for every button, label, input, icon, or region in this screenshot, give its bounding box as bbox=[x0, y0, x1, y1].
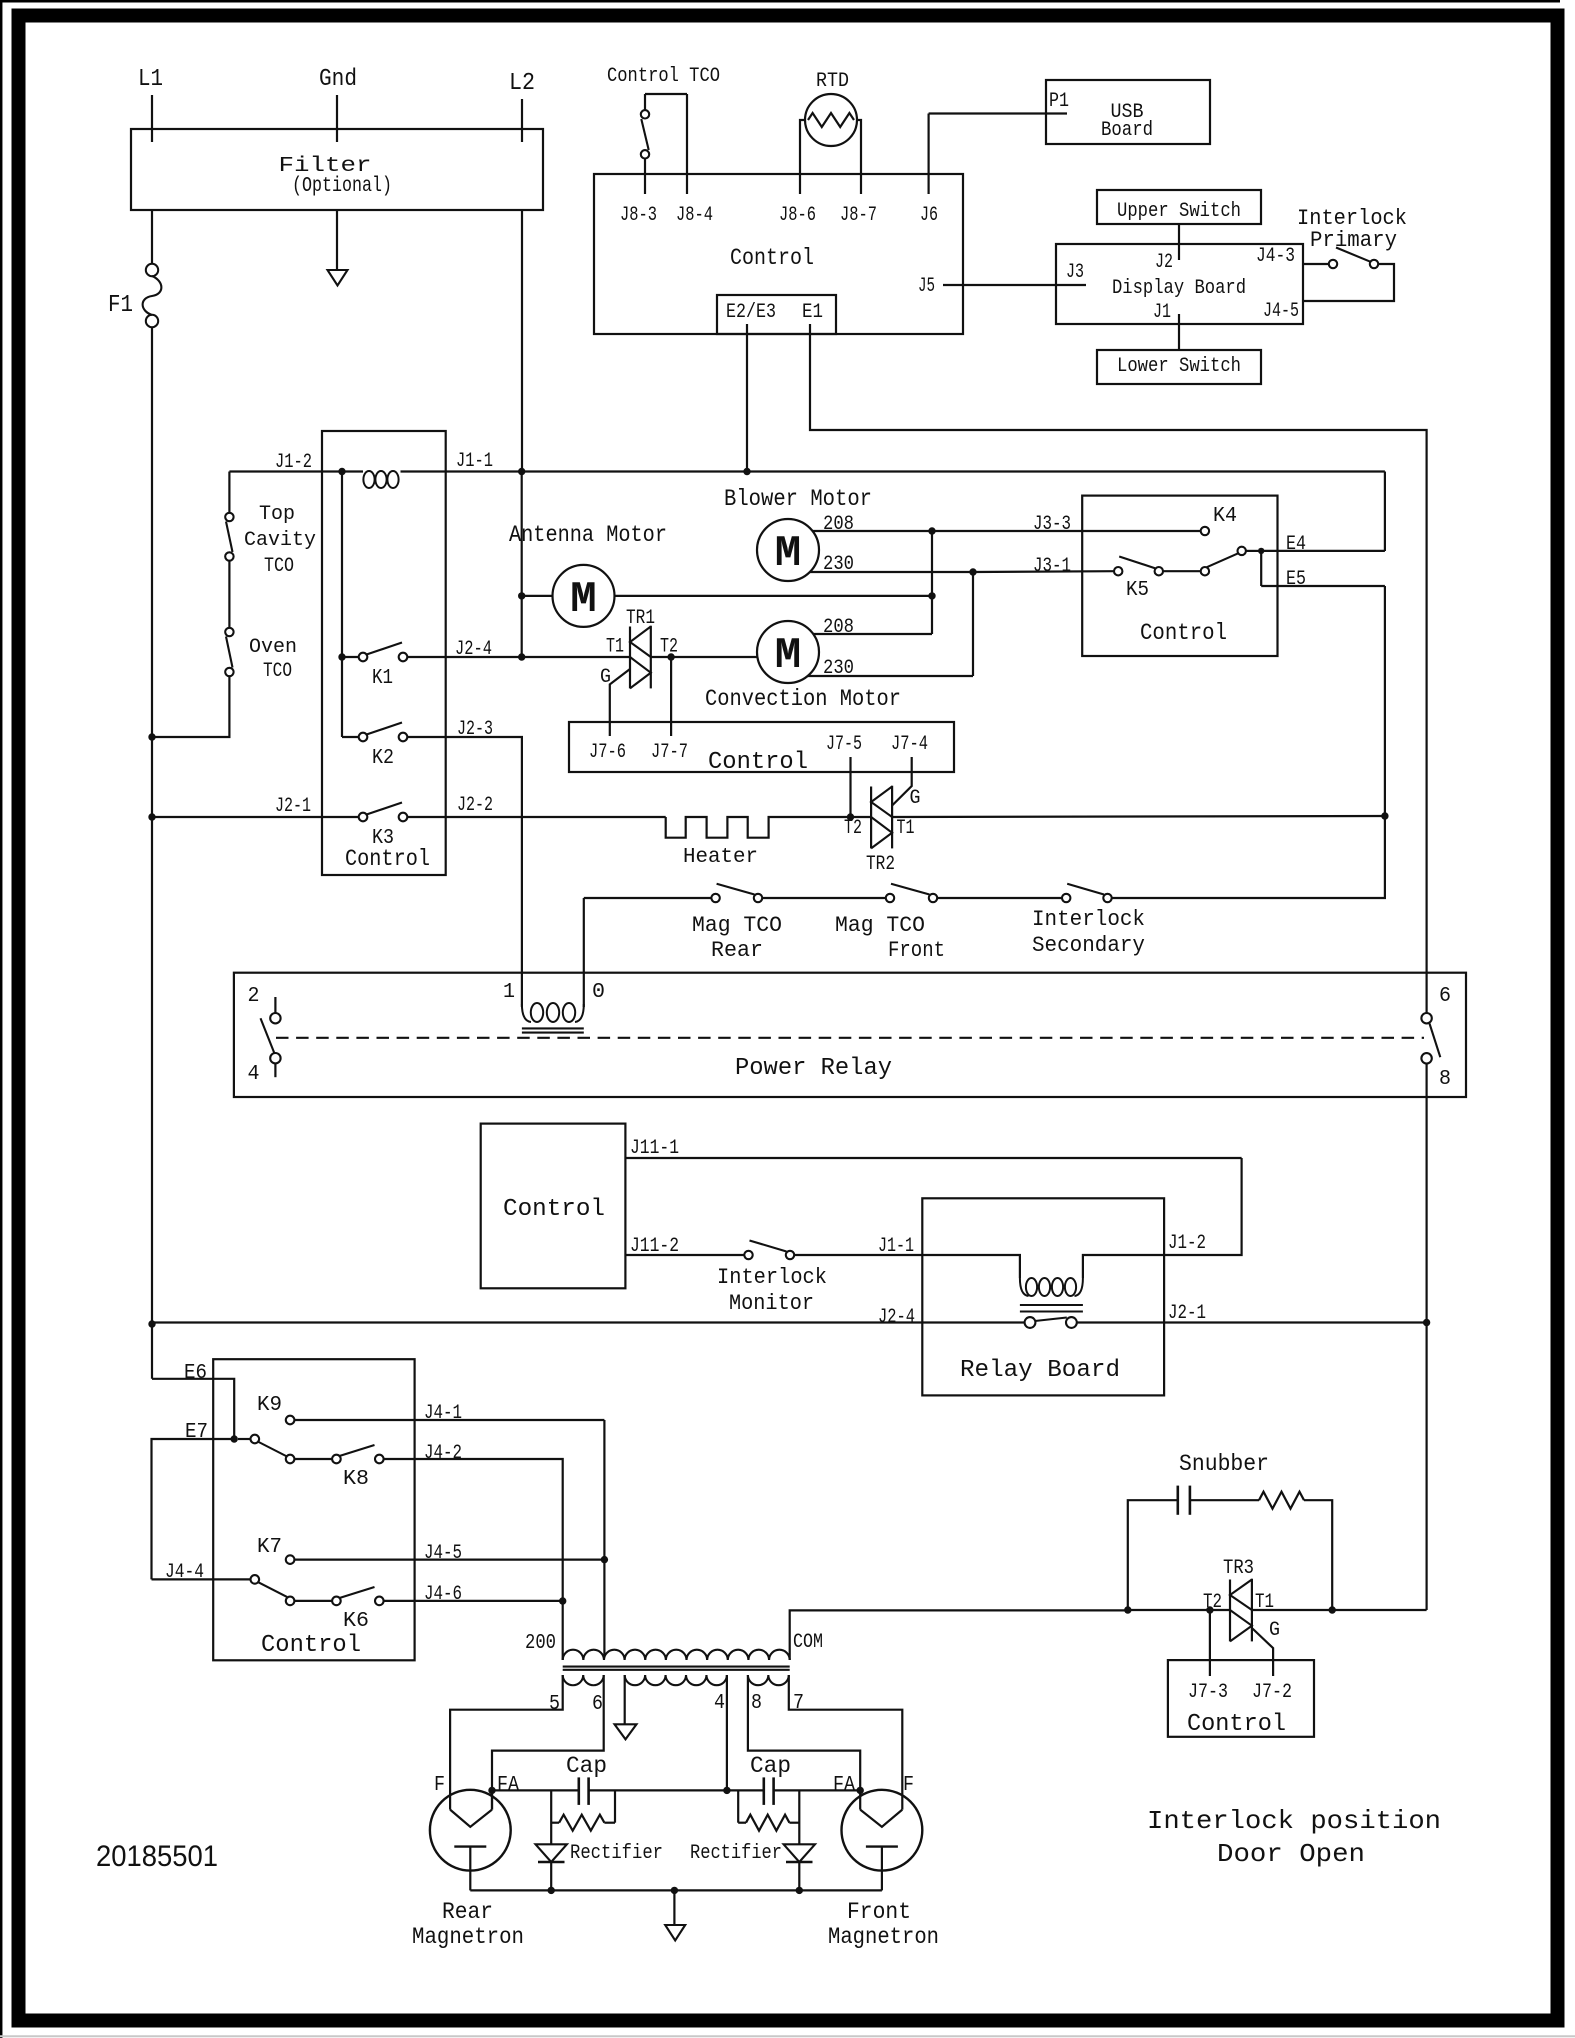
wire TR1 T2 to convection bbox=[651, 656, 757, 658]
rectifier diode front bbox=[784, 1844, 815, 1862]
wire COM bbox=[790, 1610, 1128, 1660]
svg-text:J4-1: J4-1 bbox=[424, 1402, 462, 1425]
svg-text:TCO: TCO bbox=[264, 555, 294, 578]
svg-text:J2-4: J2-4 bbox=[878, 1306, 915, 1329]
wire TR3 T1 to right bus bbox=[1252, 1609, 1427, 1611]
svg-text:F1: F1 bbox=[108, 292, 133, 319]
svg-text:M: M bbox=[570, 575, 596, 625]
upper switch box bbox=[1097, 190, 1261, 224]
wire E6 bbox=[152, 1379, 234, 1439]
wire relay coil 1 riser bbox=[583, 898, 585, 1004]
magnetron front bbox=[842, 1790, 923, 1871]
transformer secondary HV bbox=[625, 1675, 727, 1685]
switch Oven TCO bbox=[225, 628, 233, 636]
svg-text:M: M bbox=[775, 529, 801, 579]
svg-text:Front: Front bbox=[847, 1899, 911, 1925]
svg-text:K3: K3 bbox=[372, 827, 394, 850]
switch lever power relay 6-8 bbox=[1430, 1024, 1441, 1058]
wire 8 to front FA bbox=[748, 1675, 860, 1810]
relay board box bbox=[922, 1198, 1164, 1395]
core lines power relay bbox=[522, 1027, 584, 1029]
wire J4-1 riser to transformer bbox=[603, 1420, 605, 1657]
svg-text:J3-3: J3-3 bbox=[1033, 513, 1071, 536]
svg-text:J1-1: J1-1 bbox=[878, 1235, 914, 1258]
svg-text:Rear: Rear bbox=[442, 1899, 493, 1925]
svg-text:2: 2 bbox=[248, 985, 260, 1008]
svg-text:J7-7: J7-7 bbox=[651, 741, 688, 764]
wire J3-3 bbox=[932, 530, 1201, 532]
svg-text:Front: Front bbox=[888, 938, 945, 963]
svg-text:J2-4: J2-4 bbox=[455, 638, 492, 661]
svg-text:Cap: Cap bbox=[566, 1753, 607, 1779]
wire Gnd filter to ground bbox=[336, 210, 338, 270]
resistor heater bbox=[666, 817, 871, 838]
usb board P1 bbox=[1046, 80, 1210, 144]
core lines relay board bbox=[1020, 1304, 1083, 1306]
ground symbol bottom bbox=[673, 1890, 675, 1925]
svg-text:T2: T2 bbox=[844, 817, 862, 840]
svg-text:(Optional): (Optional) bbox=[292, 175, 392, 198]
op box control K6-K9 bbox=[213, 1359, 414, 1660]
wire J4-4 bbox=[152, 1578, 251, 1580]
transformer core bbox=[563, 1666, 790, 1668]
svg-text:Power Relay: Power Relay bbox=[735, 1055, 892, 1082]
svg-text:T1: T1 bbox=[606, 636, 624, 659]
svg-text:J11-1: J11-1 bbox=[630, 1137, 679, 1160]
svg-text:Convection Motor: Convection Motor bbox=[705, 686, 901, 712]
wire mag tco row left bbox=[584, 897, 712, 899]
svg-text:Display Board: Display Board bbox=[1112, 277, 1246, 300]
resistor bleed rear bbox=[550, 1790, 552, 1844]
svg-text:20185501: 20185501 bbox=[96, 1840, 218, 1873]
wire TR1 T1 side bbox=[522, 656, 630, 658]
wire FA bus cap to center bbox=[589, 1789, 727, 1791]
svg-text:Primary: Primary bbox=[1310, 228, 1397, 253]
svg-text:Top: Top bbox=[259, 503, 295, 526]
svg-text:J2-3: J2-3 bbox=[457, 718, 493, 741]
svg-text:J7-6: J7-6 bbox=[589, 741, 626, 764]
wire between TCOs bbox=[228, 561, 230, 628]
svg-text:Mag TCO: Mag TCO bbox=[835, 913, 925, 938]
wire E5 bbox=[1261, 585, 1385, 587]
svg-text:K6: K6 bbox=[343, 1610, 369, 1633]
svg-text:J2-2: J2-2 bbox=[457, 794, 493, 817]
triac TR3 bbox=[1229, 1580, 1231, 1642]
svg-text:E6: E6 bbox=[184, 1362, 207, 1385]
svg-text:J2-1: J2-1 bbox=[1168, 1302, 1206, 1325]
svg-text:5: 5 bbox=[549, 1693, 560, 1716]
svg-text:J7-5: J7-5 bbox=[826, 733, 862, 756]
wire J3-1 bbox=[973, 570, 1114, 573]
svg-text:J4-3: J4-3 bbox=[1256, 245, 1295, 268]
op box control K4-K5 bbox=[1082, 496, 1277, 656]
junction rear FA bbox=[488, 1787, 495, 1794]
wire J11-1 bbox=[625, 1157, 1241, 1159]
contact power relay 4 bbox=[270, 1053, 280, 1063]
svg-text:Snubber: Snubber bbox=[1179, 1451, 1269, 1477]
svg-text:Upper Switch: Upper Switch bbox=[1117, 200, 1241, 223]
svg-text:Cavity: Cavity bbox=[244, 529, 316, 552]
svg-text:Rectifier: Rectifier bbox=[690, 1842, 782, 1865]
svg-text:208: 208 bbox=[823, 616, 854, 639]
svg-text:J8-4: J8-4 bbox=[676, 204, 713, 227]
svg-text:L1: L1 bbox=[138, 66, 163, 93]
svg-text:L2: L2 bbox=[509, 70, 535, 97]
transformer primary bbox=[563, 1650, 790, 1660]
svg-text:Monitor: Monitor bbox=[729, 1291, 814, 1316]
svg-text:Interlock: Interlock bbox=[1032, 907, 1145, 932]
junction J4-5 node bbox=[601, 1556, 608, 1563]
switch K7/K6 pivot bbox=[251, 1575, 260, 1584]
svg-text:Heater: Heater bbox=[683, 846, 758, 869]
svg-text:E7: E7 bbox=[185, 1421, 208, 1444]
svg-text:208: 208 bbox=[823, 513, 854, 536]
svg-text:J6: J6 bbox=[920, 204, 938, 227]
junction TR2/E5 column bbox=[1381, 812, 1388, 819]
svg-text:J2-1: J2-1 bbox=[275, 795, 311, 818]
junction bus/diode rear bbox=[548, 1887, 555, 1894]
contact power relay 8 bbox=[1421, 1053, 1431, 1063]
junction front FA bbox=[857, 1787, 864, 1794]
wire FA bus center to cap2 bbox=[727, 1789, 764, 1791]
svg-text:Mag TCO: Mag TCO bbox=[692, 913, 782, 938]
svg-text:Oven: Oven bbox=[249, 636, 297, 659]
svg-text:Door Open: Door Open bbox=[1217, 1839, 1365, 1869]
svg-text:T2: T2 bbox=[1203, 1591, 1222, 1614]
wire 230 riser bbox=[972, 572, 974, 676]
junction TR2 T2 bbox=[847, 813, 854, 820]
magnetron rear bbox=[430, 1790, 511, 1871]
svg-text:J7-3: J7-3 bbox=[1188, 1681, 1228, 1704]
lower switch box bbox=[1097, 350, 1261, 384]
svg-text:200: 200 bbox=[525, 1632, 556, 1655]
svg-text:J3: J3 bbox=[1066, 261, 1084, 284]
junction bus/diode front bbox=[796, 1887, 803, 1894]
contact K4 fixed bbox=[1201, 527, 1209, 535]
wire winding4 to FA bus bbox=[726, 1675, 728, 1790]
svg-text:FA: FA bbox=[833, 1774, 855, 1797]
svg-text:Blower Motor: Blower Motor bbox=[724, 486, 872, 512]
wire K-box inner vertical bbox=[341, 472, 343, 658]
svg-text:J1: J1 bbox=[1153, 301, 1171, 324]
svg-text:G: G bbox=[910, 787, 921, 810]
svg-text:J4-5: J4-5 bbox=[1263, 300, 1299, 323]
contact K9 bbox=[286, 1416, 295, 1425]
wire L1 bus left side bbox=[151, 327, 153, 1379]
svg-text:J4-6: J4-6 bbox=[424, 1583, 462, 1606]
wire J1-1 to relay board bbox=[794, 1254, 922, 1256]
svg-text:Relay Board: Relay Board bbox=[960, 1357, 1120, 1384]
switch K6 bbox=[286, 1597, 295, 1606]
svg-text:E2/E3: E2/E3 bbox=[726, 301, 776, 324]
op box control (top) bbox=[594, 174, 963, 334]
wire J4-6 bbox=[384, 1600, 563, 1602]
junction J7-7 tap bbox=[667, 653, 674, 660]
junction J1-1/L2 bbox=[518, 468, 525, 475]
svg-text:J1-2: J1-2 bbox=[275, 451, 312, 474]
fuse F1 bbox=[146, 264, 158, 276]
svg-text:FA: FA bbox=[497, 1774, 519, 1797]
svg-text:RTD: RTD bbox=[816, 70, 849, 93]
svg-text:K9: K9 bbox=[257, 1394, 282, 1417]
svg-text:K5: K5 bbox=[1126, 579, 1149, 602]
wire L2 column to J2-4 bbox=[521, 472, 523, 658]
wire J7-7 drop bbox=[670, 657, 672, 736]
coil relay board bbox=[922, 1255, 1020, 1278]
svg-text:K2: K2 bbox=[372, 747, 394, 770]
wire J2-4 row bbox=[152, 1321, 1026, 1323]
wire top cavity branch bbox=[228, 472, 230, 513]
svg-text:Gnd: Gnd bbox=[319, 66, 357, 93]
wire J2-2 to heater bbox=[407, 816, 665, 818]
junction TR3 T2 node bbox=[1206, 1606, 1213, 1613]
switch lever power relay 2-4 bbox=[261, 1018, 275, 1053]
motor convection bbox=[757, 621, 819, 683]
svg-text:J7-4: J7-4 bbox=[891, 733, 928, 756]
wire J1 lower switch bbox=[1178, 314, 1180, 350]
switch K8 bbox=[286, 1455, 295, 1464]
svg-text:J11-2: J11-2 bbox=[630, 1235, 679, 1258]
junction J1-1/E2E3 bbox=[743, 468, 750, 475]
junction E7 node bbox=[231, 1435, 238, 1442]
svg-text:T1: T1 bbox=[897, 817, 915, 840]
wire COM to TR3 bbox=[1128, 1609, 1230, 1611]
svg-text:J1-2: J1-2 bbox=[1168, 1232, 1206, 1255]
junction K1 branch bbox=[338, 653, 345, 660]
svg-text:230: 230 bbox=[823, 657, 854, 680]
wire 6 to rear FA bbox=[492, 1675, 604, 1810]
wire 5 to rear F bbox=[450, 1675, 563, 1810]
svg-text:Magnetron: Magnetron bbox=[412, 1924, 524, 1950]
svg-text:E4: E4 bbox=[1286, 533, 1306, 556]
svg-text:4: 4 bbox=[714, 1692, 725, 1715]
svg-text:Control: Control bbox=[730, 245, 814, 271]
junction J1-1/coil bbox=[338, 468, 345, 475]
wire oven TCO to L1 bus bbox=[152, 676, 229, 737]
junction HV4/FA bus bbox=[723, 1787, 730, 1794]
svg-text:J4-4: J4-4 bbox=[165, 1561, 204, 1584]
junction L1/J2-1 bbox=[148, 813, 155, 820]
svg-text:J4-5: J4-5 bbox=[424, 1542, 462, 1565]
svg-text:J1-1: J1-1 bbox=[456, 450, 493, 473]
wire L1 drop into filter bbox=[151, 95, 153, 142]
wire FA bus rear-cap bbox=[492, 1789, 579, 1791]
wire cathode bus bbox=[470, 1889, 882, 1891]
wire FA bus cap2 to front FA bbox=[774, 1789, 861, 1791]
svg-text:E5: E5 bbox=[1286, 568, 1306, 591]
svg-text:J8-6: J8-6 bbox=[779, 204, 816, 227]
svg-text:F: F bbox=[434, 1774, 445, 1797]
switch Interlock Secondary bbox=[1062, 894, 1070, 902]
snubber capacitor bbox=[1128, 1500, 1178, 1610]
wire E1 to right bus bbox=[810, 324, 1427, 1013]
svg-text:K8: K8 bbox=[343, 1468, 369, 1491]
junction J2-4 node bbox=[518, 653, 525, 660]
op box control (TR3) bbox=[1168, 1660, 1314, 1737]
switch relay board contact bbox=[1025, 1317, 1036, 1328]
svg-text:TR2: TR2 bbox=[866, 853, 895, 876]
junction E4 node bbox=[1258, 548, 1264, 554]
switch interlock primary bbox=[1303, 263, 1329, 265]
switch K5 bbox=[1114, 567, 1122, 575]
switch K9/K8 pivot bbox=[238, 1438, 250, 1440]
wire right bus relay8 down bbox=[1425, 1064, 1427, 1610]
junction bus/ground bbox=[671, 1887, 678, 1894]
svg-text:Board: Board bbox=[1101, 119, 1153, 142]
svg-text:8: 8 bbox=[751, 1692, 762, 1715]
junction blower230/J3-1 bbox=[969, 568, 976, 575]
svg-text:Control: Control bbox=[503, 1196, 605, 1223]
junction L1/TCO bbox=[148, 733, 155, 740]
switch K2 bbox=[342, 736, 359, 738]
switch Interlock Monitor bbox=[744, 1251, 752, 1259]
svg-text:J2: J2 bbox=[1155, 251, 1173, 274]
op box power relay bbox=[234, 973, 1466, 1097]
resistor bleed front bbox=[798, 1790, 800, 1844]
svg-text:F: F bbox=[903, 1774, 914, 1797]
svg-text:COM: COM bbox=[793, 1631, 823, 1654]
transformer secondary 8-7 bbox=[748, 1675, 789, 1685]
svg-text:7: 7 bbox=[793, 1692, 804, 1715]
svg-text:P1: P1 bbox=[1049, 90, 1069, 113]
wire mag tco to interlock sec bbox=[937, 897, 1062, 899]
svg-text:Interlock position: Interlock position bbox=[1147, 1806, 1441, 1836]
svg-text:6: 6 bbox=[1439, 985, 1451, 1008]
svg-text:E1: E1 bbox=[802, 301, 823, 324]
svg-text:Magnetron: Magnetron bbox=[828, 1924, 939, 1950]
wire L2 filter down to J1-1 row bbox=[521, 210, 523, 472]
wire Gnd drop into filter bbox=[336, 95, 338, 142]
svg-text:G: G bbox=[600, 666, 611, 689]
wire E4 bbox=[1261, 550, 1385, 552]
wire mag tco mid bbox=[762, 897, 885, 899]
switch K4 lever bbox=[1207, 553, 1238, 567]
pin J6 bbox=[927, 114, 929, 195]
wire J2-1 row bbox=[152, 816, 359, 818]
op box control (J11) bbox=[481, 1124, 626, 1289]
wire J7-3 drop bbox=[1209, 1610, 1211, 1676]
wire J7-5 drop bbox=[849, 757, 851, 817]
wire 208 riser bbox=[931, 531, 933, 634]
svg-text:1: 1 bbox=[503, 981, 515, 1004]
wire E4 riser bbox=[1384, 472, 1386, 552]
wire J2 upper switch bbox=[1178, 224, 1180, 260]
rectifier diode rear bbox=[536, 1844, 567, 1862]
svg-text:6: 6 bbox=[592, 1693, 603, 1716]
svg-text:Lower Switch: Lower Switch bbox=[1117, 355, 1241, 378]
filter box (Optional) bbox=[131, 129, 543, 210]
wire E2/E3 to J1-1 row bbox=[746, 324, 748, 472]
svg-text:Rectifier: Rectifier bbox=[570, 1842, 663, 1865]
svg-text:Antenna Motor: Antenna Motor bbox=[509, 522, 667, 548]
svg-text:J5: J5 bbox=[918, 275, 935, 298]
svg-text:K1: K1 bbox=[372, 667, 393, 690]
svg-text:J7-2: J7-2 bbox=[1252, 1681, 1292, 1704]
junction L1/J2-4 row bbox=[148, 1320, 155, 1327]
svg-text:Control: Control bbox=[261, 1632, 361, 1659]
contact power relay 6 bbox=[1421, 1013, 1431, 1023]
svg-text:G: G bbox=[1269, 1619, 1280, 1642]
switch K1 bbox=[342, 656, 359, 658]
wire L2 drop into filter bbox=[521, 99, 523, 142]
wire J1-2 up to J11-1 bbox=[1164, 1158, 1242, 1255]
switch Top Cavity TCO bbox=[225, 513, 233, 521]
op box control (middle) bbox=[569, 722, 954, 772]
wire J11-2 bbox=[625, 1254, 744, 1256]
svg-text:Control: Control bbox=[708, 749, 808, 776]
svg-text:Cap: Cap bbox=[750, 1753, 791, 1779]
svg-text:Control: Control bbox=[1140, 620, 1227, 646]
transformer secondary 5-6 bbox=[563, 1675, 604, 1685]
wire E4-E5 link bbox=[1260, 551, 1262, 586]
svg-text:Rear: Rear bbox=[711, 938, 763, 963]
junction snubber left bbox=[1124, 1606, 1131, 1613]
junction J4-6 node bbox=[559, 1597, 566, 1604]
snubber resistor bbox=[1259, 1492, 1304, 1509]
switch Mag TCO Rear bbox=[711, 894, 719, 902]
svg-text:J8-7: J8-7 bbox=[840, 204, 877, 227]
svg-text:Control TCO: Control TCO bbox=[607, 65, 720, 88]
wire E7 left link bbox=[152, 1439, 235, 1579]
wire J7-4 to TR2 gate bbox=[892, 757, 912, 806]
contact K7 bbox=[286, 1555, 295, 1564]
junction antenna/208riser bbox=[928, 592, 935, 599]
junction blower208/J3-3 bbox=[928, 527, 935, 534]
wire J2-3 bbox=[407, 737, 522, 1004]
junction snubber right bbox=[1329, 1606, 1336, 1613]
svg-text:J3-1: J3-1 bbox=[1033, 555, 1071, 578]
svg-text:Secondary: Secondary bbox=[1032, 933, 1145, 958]
wire J2-1 from relay board bbox=[1076, 1321, 1427, 1323]
svg-text:J4-2: J4-2 bbox=[424, 1442, 462, 1465]
svg-text:TCO: TCO bbox=[263, 660, 292, 683]
ground symbol below filter bbox=[328, 270, 348, 286]
switch Control TCO bbox=[644, 94, 646, 110]
triac TR1 bbox=[629, 627, 631, 689]
relay coil K box bbox=[363, 471, 374, 488]
wire J2-4 bbox=[407, 656, 521, 658]
junction antenna tap bbox=[518, 592, 525, 599]
switch K3 bbox=[359, 813, 368, 822]
svg-text:K4: K4 bbox=[1213, 505, 1237, 528]
svg-text:Control: Control bbox=[1187, 1711, 1286, 1738]
svg-text:4: 4 bbox=[248, 1063, 260, 1086]
svg-text:J8-3: J8-3 bbox=[620, 204, 657, 227]
svg-text:TR1: TR1 bbox=[626, 607, 655, 630]
svg-text:8: 8 bbox=[1439, 1068, 1451, 1091]
wire J4-2 bbox=[384, 1459, 563, 1601]
wire TR2 T1 to E5 column bbox=[892, 816, 1385, 817]
svg-text:M: M bbox=[775, 631, 801, 681]
triac TR2 bbox=[870, 787, 872, 849]
wire J1-1 row bbox=[229, 470, 363, 472]
pins E2/E3 E1 sub-box bbox=[717, 295, 836, 334]
svg-text:0: 0 bbox=[592, 981, 605, 1004]
ground symbol HV winding bbox=[624, 1675, 626, 1724]
svg-text:K7: K7 bbox=[257, 1536, 282, 1559]
wire L1 filter to fuse bbox=[151, 210, 153, 264]
op box control K1-K3 bbox=[322, 431, 446, 875]
svg-text:TR3: TR3 bbox=[1223, 1557, 1254, 1580]
wire interlock sec to E5 riser bbox=[1112, 586, 1385, 898]
coil power relay bbox=[521, 1004, 523, 1007]
wire J4-2 riser to transformer bbox=[562, 1601, 564, 1660]
wire 7 to front F bbox=[789, 1675, 903, 1810]
junction right bus / J2-1 row bbox=[1423, 1319, 1430, 1326]
switch Mag TCO Front bbox=[886, 894, 894, 902]
svg-text:Interlock: Interlock bbox=[717, 1265, 827, 1290]
display board box bbox=[1056, 244, 1303, 324]
